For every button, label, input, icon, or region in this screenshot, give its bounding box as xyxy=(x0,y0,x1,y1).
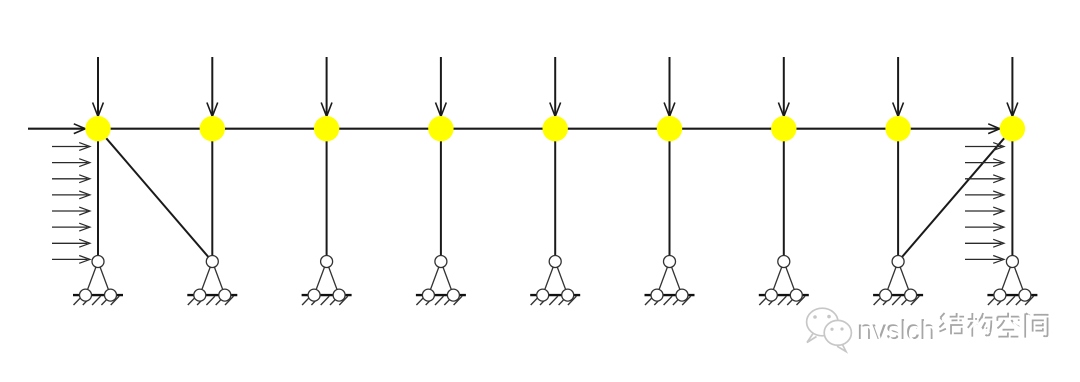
node N9 (yellow joint) xyxy=(1000,116,1025,141)
watermark text 结构空间 (hand-drawn strokes, embossed) xyxy=(939,313,1047,338)
column member M2 xyxy=(211,129,213,256)
right wind load arrow WR3 xyxy=(965,175,1004,183)
column member M9 xyxy=(1011,129,1013,256)
column member M6 xyxy=(669,129,671,256)
left wind load arrow WL8 xyxy=(52,256,90,264)
node N5 (yellow joint) xyxy=(543,116,568,141)
column member M8 xyxy=(897,129,899,256)
support S9 (hinged rocker on rollers with ground hatching) xyxy=(987,256,1037,306)
left wind load arrow WL3 xyxy=(52,175,90,183)
vertical load arrow F4 xyxy=(436,57,447,117)
watermark WeChat logo xyxy=(807,308,852,351)
node N7 (yellow joint) xyxy=(771,116,796,141)
column member M4 xyxy=(440,129,442,256)
vertical load arrow F2 xyxy=(207,57,218,117)
horizontal load arrow into node N1 xyxy=(28,124,85,134)
vertical load arrow F7 xyxy=(778,57,789,117)
node N1 (yellow joint) xyxy=(85,116,110,141)
horizontal arrowhead into node N9 xyxy=(988,124,1000,134)
watermark text nvslch (embossed) xyxy=(859,319,933,339)
vertical load arrow F1 xyxy=(93,57,104,117)
left wind load arrow WL1 xyxy=(52,143,90,151)
column member M3 xyxy=(326,129,328,256)
support S7 (hinged rocker on rollers with ground hatching) xyxy=(759,256,809,306)
node N8 (yellow joint) xyxy=(885,116,910,141)
vertical load arrow F9 xyxy=(1007,57,1018,117)
support S3 (hinged rocker on rollers with ground hatching) xyxy=(302,256,352,306)
column member M7 xyxy=(783,129,785,256)
diagonal brace D1 (node N1 to support S2) xyxy=(106,138,208,257)
vertical load arrow F5 xyxy=(550,57,561,117)
node N2 (yellow joint) xyxy=(200,116,225,141)
beam (top chord line) xyxy=(98,128,1012,130)
node N3 (yellow joint) xyxy=(314,116,339,141)
support S8 (hinged rocker on rollers with ground hatching) xyxy=(873,256,923,306)
right wind load arrow WR5 xyxy=(965,207,1004,215)
right wind load arrow WR6 xyxy=(965,223,1004,231)
support S2 (hinged rocker on rollers with ground hatching) xyxy=(187,256,237,306)
left wind load arrow WL4 xyxy=(52,191,90,199)
right wind load arrow WR2 xyxy=(965,159,1004,167)
right wind load arrow WR7 xyxy=(965,239,1004,247)
left wind load arrow WL7 xyxy=(52,239,90,247)
vertical load arrow F6 xyxy=(664,57,675,117)
left wind load arrow WL2 xyxy=(52,159,90,167)
node N6 (yellow joint) xyxy=(657,116,682,141)
node N4 (yellow joint) xyxy=(428,116,453,141)
support S4 (hinged rocker on rollers with ground hatching) xyxy=(416,256,466,306)
support S1 (hinged rocker on rollers with ground hatching) xyxy=(73,256,123,306)
vertical load arrow F8 xyxy=(893,57,904,117)
right wind load arrow WR8 xyxy=(965,256,1004,264)
support S6 (hinged rocker on rollers with ground hatching) xyxy=(645,256,695,306)
vertical load arrow F3 xyxy=(321,57,332,117)
right wind load arrow WR1 xyxy=(965,143,1004,151)
diagonal brace D2 (support S8 to node N9) xyxy=(902,138,1004,257)
support S5 (hinged rocker on rollers with ground hatching) xyxy=(530,256,580,306)
right wind load arrow WR4 xyxy=(965,191,1004,199)
left wind load arrow WL6 xyxy=(52,223,90,231)
left wind load arrow WL5 xyxy=(52,207,90,215)
column member M5 xyxy=(554,129,556,256)
column member M1 xyxy=(97,129,99,256)
